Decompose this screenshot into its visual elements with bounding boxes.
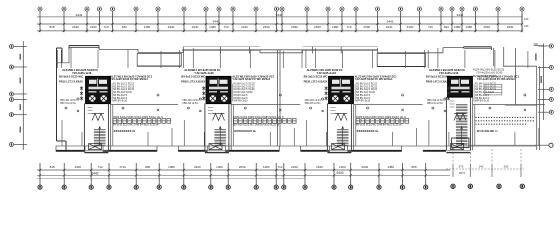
right area dotted rows — [476, 117, 535, 124]
left grid ticks — [14, 47, 27, 145]
svg-text:2640: 2640 — [314, 25, 321, 29]
unit 1 interior walls — [57, 48, 178, 146]
unit 2 marks left of core — [202, 86, 205, 100]
unit 2 label below stairs — [234, 129, 256, 133]
building left end wall — [57, 48, 70, 152]
unit 3 interior walls — [302, 48, 423, 146]
unit 4 long annotation row — [426, 74, 520, 81]
recessed balcony box unit1 — [137, 54, 181, 67]
svg-text:1710: 1710 — [119, 165, 126, 169]
top edge mid segments — [99, 47, 464, 54]
svg-text:2940: 2940 — [194, 165, 201, 169]
bottom edge notch verticals — [56, 146, 402, 152]
unit 3 left room annotations — [304, 80, 328, 84]
svg-text:PB30 L3T.3 X.BA2X: PB30 L3T.3 X.BA2X — [304, 80, 328, 84]
unit 2 long annotation row — [181, 74, 275, 81]
right area annotation block — [473, 68, 505, 79]
svg-text:712: 712 — [98, 165, 103, 169]
svg-text:712: 712 — [277, 165, 282, 169]
svg-text:XBC-N3 x2.5m: XBC-N3 x2.5m — [305, 102, 321, 105]
svg-text:290: 290 — [504, 165, 509, 169]
svg-text:XBC-N2 x2.5m: XBC-N2 x2.5m — [182, 102, 198, 105]
svg-text:9442: 9442 — [457, 13, 464, 17]
svg-text:XXXXXXXXX fa: XXXXXXXXX fa — [114, 129, 136, 133]
top edge party-wall balcony band — [260, 50, 303, 53]
unit 2 circuit list block — [232, 84, 234, 102]
unit 2 scattered symbols — [187, 94, 281, 112]
unit 3 long annotation row — [304, 74, 398, 81]
unit 1 marks left of core — [80, 86, 83, 100]
svg-text:710: 710 — [103, 25, 108, 29]
top dimension numbers — [49, 25, 513, 29]
bottom right mini dimension line — [446, 168, 524, 170]
bottom overall dimension labels — [91, 171, 343, 175]
svg-text:2100: 2100 — [291, 165, 298, 169]
dashed stems above mini band — [453, 149, 521, 164]
stair/elevator core unit 3 — [329, 77, 354, 104]
svg-text:2940: 2940 — [168, 25, 175, 29]
svg-text:240: 240 — [524, 17, 529, 21]
svg-text:2640: 2640 — [72, 25, 79, 29]
svg-text:1480: 1480 — [332, 25, 339, 29]
stair bottom landing unit 1 — [89, 144, 102, 150]
svg-text:BV-3x10 SC25 WC 1AW BV-3x10 SC: BV-3x10 SC25 WC 1AW BV-3x10 SC25 W — [113, 123, 159, 126]
svg-text:XXXXXXXXX fa: XXXXXXXXX fa — [234, 129, 256, 133]
svg-text:PB10 L1T.3 X.BA2X: PB10 L1T.3 X.BA2X — [59, 80, 83, 84]
unit 3 meter row boxes — [356, 119, 409, 124]
recessed balcony box unit3/4 — [377, 54, 425, 67]
svg-text:1480: 1480 — [263, 165, 270, 169]
party wall (expansion joint) — [278, 50, 280, 146]
svg-text:860: 860 — [145, 165, 150, 169]
right grid bubbles — [549, 44, 553, 114]
bottom grid stems — [40, 163, 426, 185]
right band rotated numbers — [535, 54, 542, 84]
unit 2 meter/distribution row — [234, 116, 284, 127]
unit 1 scattered symbols — [65, 94, 159, 112]
svg-text:710: 710 — [346, 25, 351, 29]
unit 2 left room annotations — [181, 80, 205, 84]
top grid stems — [40, 11, 522, 32]
svg-text:840: 840 — [444, 25, 449, 29]
svg-text:1480: 1480 — [168, 165, 175, 169]
svg-text:570: 570 — [459, 165, 464, 169]
svg-text:BV-3x10 SC25 WC 1AW BV-3x10 SC: BV-3x10 SC25 WC 1AW BV-3x10 SC25 W — [356, 123, 402, 126]
stair treads unit 2 — [214, 127, 226, 147]
svg-text:YJV-4x25+1x16: YJV-4x25+1x16 — [194, 71, 214, 75]
wall right of stair unit 2 — [230, 104, 232, 151]
svg-text:BV-3x2.5-SC15 WC: BV-3x2.5-SC15 WC — [473, 74, 497, 78]
svg-text:BV-3x2.5 SC15 WC: BV-3x2.5 SC15 WC — [426, 74, 450, 78]
svg-text:XBC-N1 x2.5m: XBC-N1 x2.5m — [60, 102, 76, 105]
top overall dimension labels — [76, 13, 464, 23]
bottom grid bubbles — [38, 185, 428, 189]
svg-text:840: 840 — [122, 25, 127, 29]
building right end double wall — [516, 48, 540, 150]
svg-text:1300: 1300 — [74, 165, 81, 169]
wall right of stair unit 4 — [472, 97, 474, 150]
unit 1 meter/distribution row — [113, 116, 163, 127]
svg-text:710: 710 — [223, 25, 228, 29]
svg-text:2940: 2940 — [362, 165, 369, 169]
svg-text:2100: 2100 — [241, 25, 248, 29]
svg-text:710: 710 — [428, 25, 433, 29]
svg-text:1480: 1480 — [209, 25, 216, 29]
stair/elevator core unit 4 — [448, 77, 473, 98]
svg-text:2100: 2100 — [363, 25, 370, 29]
right grid ticks — [538, 46, 549, 112]
svg-text:1480: 1480 — [454, 25, 461, 29]
stair bottom landing unit 4 — [451, 144, 464, 150]
wall right of stair unit 3 — [353, 104, 355, 151]
bottom right mini numbers — [459, 165, 509, 175]
svg-text:2640: 2640 — [316, 165, 323, 169]
svg-text:240: 240 — [534, 42, 539, 46]
unit 1 left room annotations — [59, 80, 83, 84]
stairwell unit 1 — [84, 104, 108, 153]
unit 4 interior walls — [424, 48, 545, 146]
stair treads unit 1 — [94, 127, 106, 147]
svg-text:WP BV-3x10: WP BV-3x10 — [234, 100, 249, 103]
unit 4 left room annotations — [426, 80, 450, 84]
svg-text:PB20 L2T.3 X.BA2X: PB20 L2T.3 X.BA2X — [181, 80, 205, 84]
svg-text:PB40 L4T.3 X.BA2X: PB40 L4T.3 X.BA2X — [426, 80, 450, 84]
svg-text:2940: 2940 — [291, 25, 298, 29]
stairwell unit 2 — [205, 104, 229, 153]
svg-text:9442: 9442 — [76, 13, 83, 17]
stair upper flight lines unit 2 — [208, 108, 213, 114]
stair upper landing zigzag unit 1 — [92, 114, 104, 121]
svg-text:BV-3x2.5 SC15 WC: BV-3x2.5 SC15 WC — [304, 74, 328, 78]
stair bottom landing unit 3 — [332, 144, 345, 150]
stair upper flight lines unit 1 — [88, 108, 93, 114]
svg-text:2640: 2640 — [192, 25, 199, 29]
unit 1 meter row boxes — [113, 119, 171, 124]
svg-text:2640: 2640 — [483, 25, 490, 29]
right area bottom room box — [452, 138, 535, 148]
bottom right mini bubbles — [451, 184, 525, 188]
unit 1 long annotation row — [59, 74, 153, 81]
svg-text:240: 240 — [524, 24, 529, 28]
svg-text:YJV-4x25 SC32 FC WC BV3x4: YJV-4x25 SC32 FC WC BV3x4 — [355, 77, 393, 81]
svg-text:XXXXXXXXX fa: XXXXXXXXX fa — [357, 129, 379, 133]
svg-text:2100: 2100 — [407, 25, 414, 29]
stair treads unit 3 — [337, 127, 349, 147]
unit 4 scattered symbols — [432, 94, 526, 112]
top edge right-end double segment — [464, 47, 492, 50]
svg-text:YJV-4x25+1x16: YJV-4x25+1x16 — [317, 71, 337, 75]
unit 3 header annotation text — [307, 68, 343, 75]
svg-text:2640: 2640 — [263, 25, 270, 29]
unit 1 circuit list block — [111, 84, 113, 102]
svg-text:YJV-4x25 SC32 FC WC BV3x4: YJV-4x25 SC32 FC WC BV3x4 — [110, 77, 148, 81]
unit 3 meter/distribution row — [356, 116, 406, 127]
unit 1 header annotation text — [62, 68, 98, 75]
svg-text:9440: 9440 — [213, 20, 220, 24]
building bottom edge thick bars — [56, 150, 446, 152]
right extra bubble near y145 — [549, 143, 553, 147]
svg-text:140: 140 — [479, 165, 484, 169]
top grid bubbles — [38, 7, 524, 11]
unit 4 header annotation text — [429, 68, 465, 75]
wall right of stair unit 1 — [110, 104, 112, 151]
stair treads unit 4 — [456, 105, 468, 147]
unit 3 circuit list block — [354, 84, 356, 102]
stair upper landing zigzag unit 2 — [213, 114, 225, 121]
right area scale label — [477, 129, 498, 133]
svg-text:2100: 2100 — [90, 25, 97, 29]
svg-text:818: 818 — [50, 165, 55, 169]
building stepped top edge: unit1 protrusion — [69, 46, 99, 50]
unit 4 marks left of core — [447, 86, 450, 100]
unit 1 label below stairs — [114, 129, 136, 133]
svg-text:2640: 2640 — [239, 165, 246, 169]
stairwell unit 3 — [327, 104, 351, 153]
svg-text:WP BV-3x10: WP BV-3x10 — [475, 100, 490, 103]
top dimension line chain — [37, 17, 522, 31]
top band right end ticks — [521, 14, 523, 32]
stairwell unit 4 — [446, 97, 470, 153]
svg-text:1300: 1300 — [339, 165, 346, 169]
unit 3 label below stairs — [357, 129, 379, 133]
svg-text:YJV-4x25+1x16: YJV-4x25+1x16 — [439, 71, 459, 75]
svg-text:BV-3x10 SC25 WC 1AW BV-3x10 SC: BV-3x10 SC25 WC 1AW BV-3x10 SC25 W — [234, 123, 280, 126]
right band top tick — [534, 45, 544, 47]
svg-text:XBC-N4 x2.5m: XBC-N4 x2.5m — [427, 102, 443, 105]
bottom band tick slashes — [39, 169, 427, 177]
top band tick slashes — [39, 23, 523, 32]
svg-text:YJV-4x25+1x16 SC40: YJV-4x25+1x16 SC40 — [476, 71, 503, 75]
svg-text:WP BV-3x10: WP BV-3x10 — [356, 100, 371, 103]
stair upper landing zigzag unit 4 — [454, 114, 466, 121]
svg-text:2640: 2640 — [386, 25, 393, 29]
svg-text:818: 818 — [49, 25, 54, 29]
unit 2 header annotation text — [184, 68, 220, 75]
unit 3 marks left of core — [325, 86, 328, 100]
unit 4 circuit list block — [473, 84, 475, 102]
svg-text:YJV-4x25 SC32 FC WC BV3x4: YJV-4x25 SC32 FC WC BV3x4 — [232, 77, 270, 81]
stair/elevator core unit 2 — [206, 77, 231, 104]
svg-text:4572: 4572 — [459, 171, 466, 175]
svg-text:BV-3x2.5 SC15 WC: BV-3x2.5 SC15 WC — [59, 74, 83, 78]
bottom dimension numbers — [50, 165, 417, 169]
svg-text:9442: 9442 — [91, 171, 98, 175]
svg-text:9440: 9440 — [336, 171, 343, 175]
right dimension vertical line — [543, 44, 545, 121]
building bottom edge thin line — [56, 145, 536, 147]
bottom dimension line chain — [37, 170, 450, 178]
stair/elevator core unit 1 — [86, 77, 111, 104]
svg-text:1480: 1480 — [387, 165, 394, 169]
stair upper landing zigzag unit 3 — [335, 114, 347, 121]
left dimension numbers (rotated) — [20, 54, 21, 133]
right area horizontal line — [505, 105, 537, 107]
left dimension vertical line — [22, 41, 24, 150]
stair upper flight lines unit 3 — [331, 108, 336, 114]
unit 2 meter row boxes — [234, 119, 297, 124]
svg-text:860: 860 — [412, 165, 417, 169]
svg-text:1F10 XXLDE 1:: 1F10 XXLDE 1: — [477, 129, 498, 133]
svg-text:YJV-4x25+1x16: YJV-4x25+1x16 — [72, 71, 92, 75]
svg-text:1300: 1300 — [216, 165, 223, 169]
stair upper flight lines unit 4 — [450, 101, 455, 107]
svg-text:BV-3x2.5 SC15 WC: BV-3x2.5 SC15 WC — [181, 74, 205, 78]
svg-text:2940: 2940 — [507, 25, 514, 29]
svg-text:9440: 9440 — [276, 13, 283, 17]
svg-text:1480: 1480 — [144, 25, 151, 29]
svg-text:1480: 1480 — [465, 25, 472, 29]
svg-text:9442: 9442 — [387, 20, 394, 24]
left grid bubbles — [9, 44, 13, 146]
stair bottom landing unit 2 — [209, 144, 222, 150]
right-end step down to annex — [494, 47, 537, 67]
unit 3 scattered symbols — [310, 94, 404, 112]
svg-text:WP BV-3x10: WP BV-3x10 — [113, 100, 128, 103]
unit 2 interior walls — [180, 48, 301, 146]
right area legend table — [485, 84, 502, 95]
